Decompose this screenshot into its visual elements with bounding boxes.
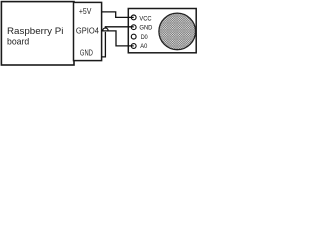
Raspberry Pi board box	[1, 2, 74, 65]
svg-text:VCC: VCC	[139, 16, 151, 23]
pin D0 circle	[131, 34, 136, 39]
sensor module box	[128, 9, 196, 53]
svg-text:+5V: +5V	[79, 6, 92, 16]
wire hop over GPIO4 wire	[103, 28, 108, 31]
pin A0 circle	[131, 44, 136, 49]
svg-text:GND: GND	[139, 25, 152, 32]
svg-text:D0: D0	[141, 34, 148, 41]
svg-text:A0: A0	[140, 43, 147, 50]
wire GND lower run	[102, 32, 106, 57]
svg-text:GPIO4: GPIO4	[76, 26, 99, 36]
wire +5V to VCC	[102, 12, 134, 18]
GPIO pin header block	[74, 2, 102, 60]
wire GND upper segment to GND pin	[105, 27, 133, 28]
wire GPIO4 to A0	[102, 31, 134, 46]
svg-text:board: board	[7, 36, 29, 47]
pin GND circle	[131, 25, 136, 30]
svg-text:Raspberry Pi: Raspberry Pi	[7, 25, 63, 36]
svg-text:GND: GND	[80, 48, 93, 58]
sensor body (hatched circle)	[159, 13, 196, 50]
pin VCC circle	[131, 15, 136, 20]
